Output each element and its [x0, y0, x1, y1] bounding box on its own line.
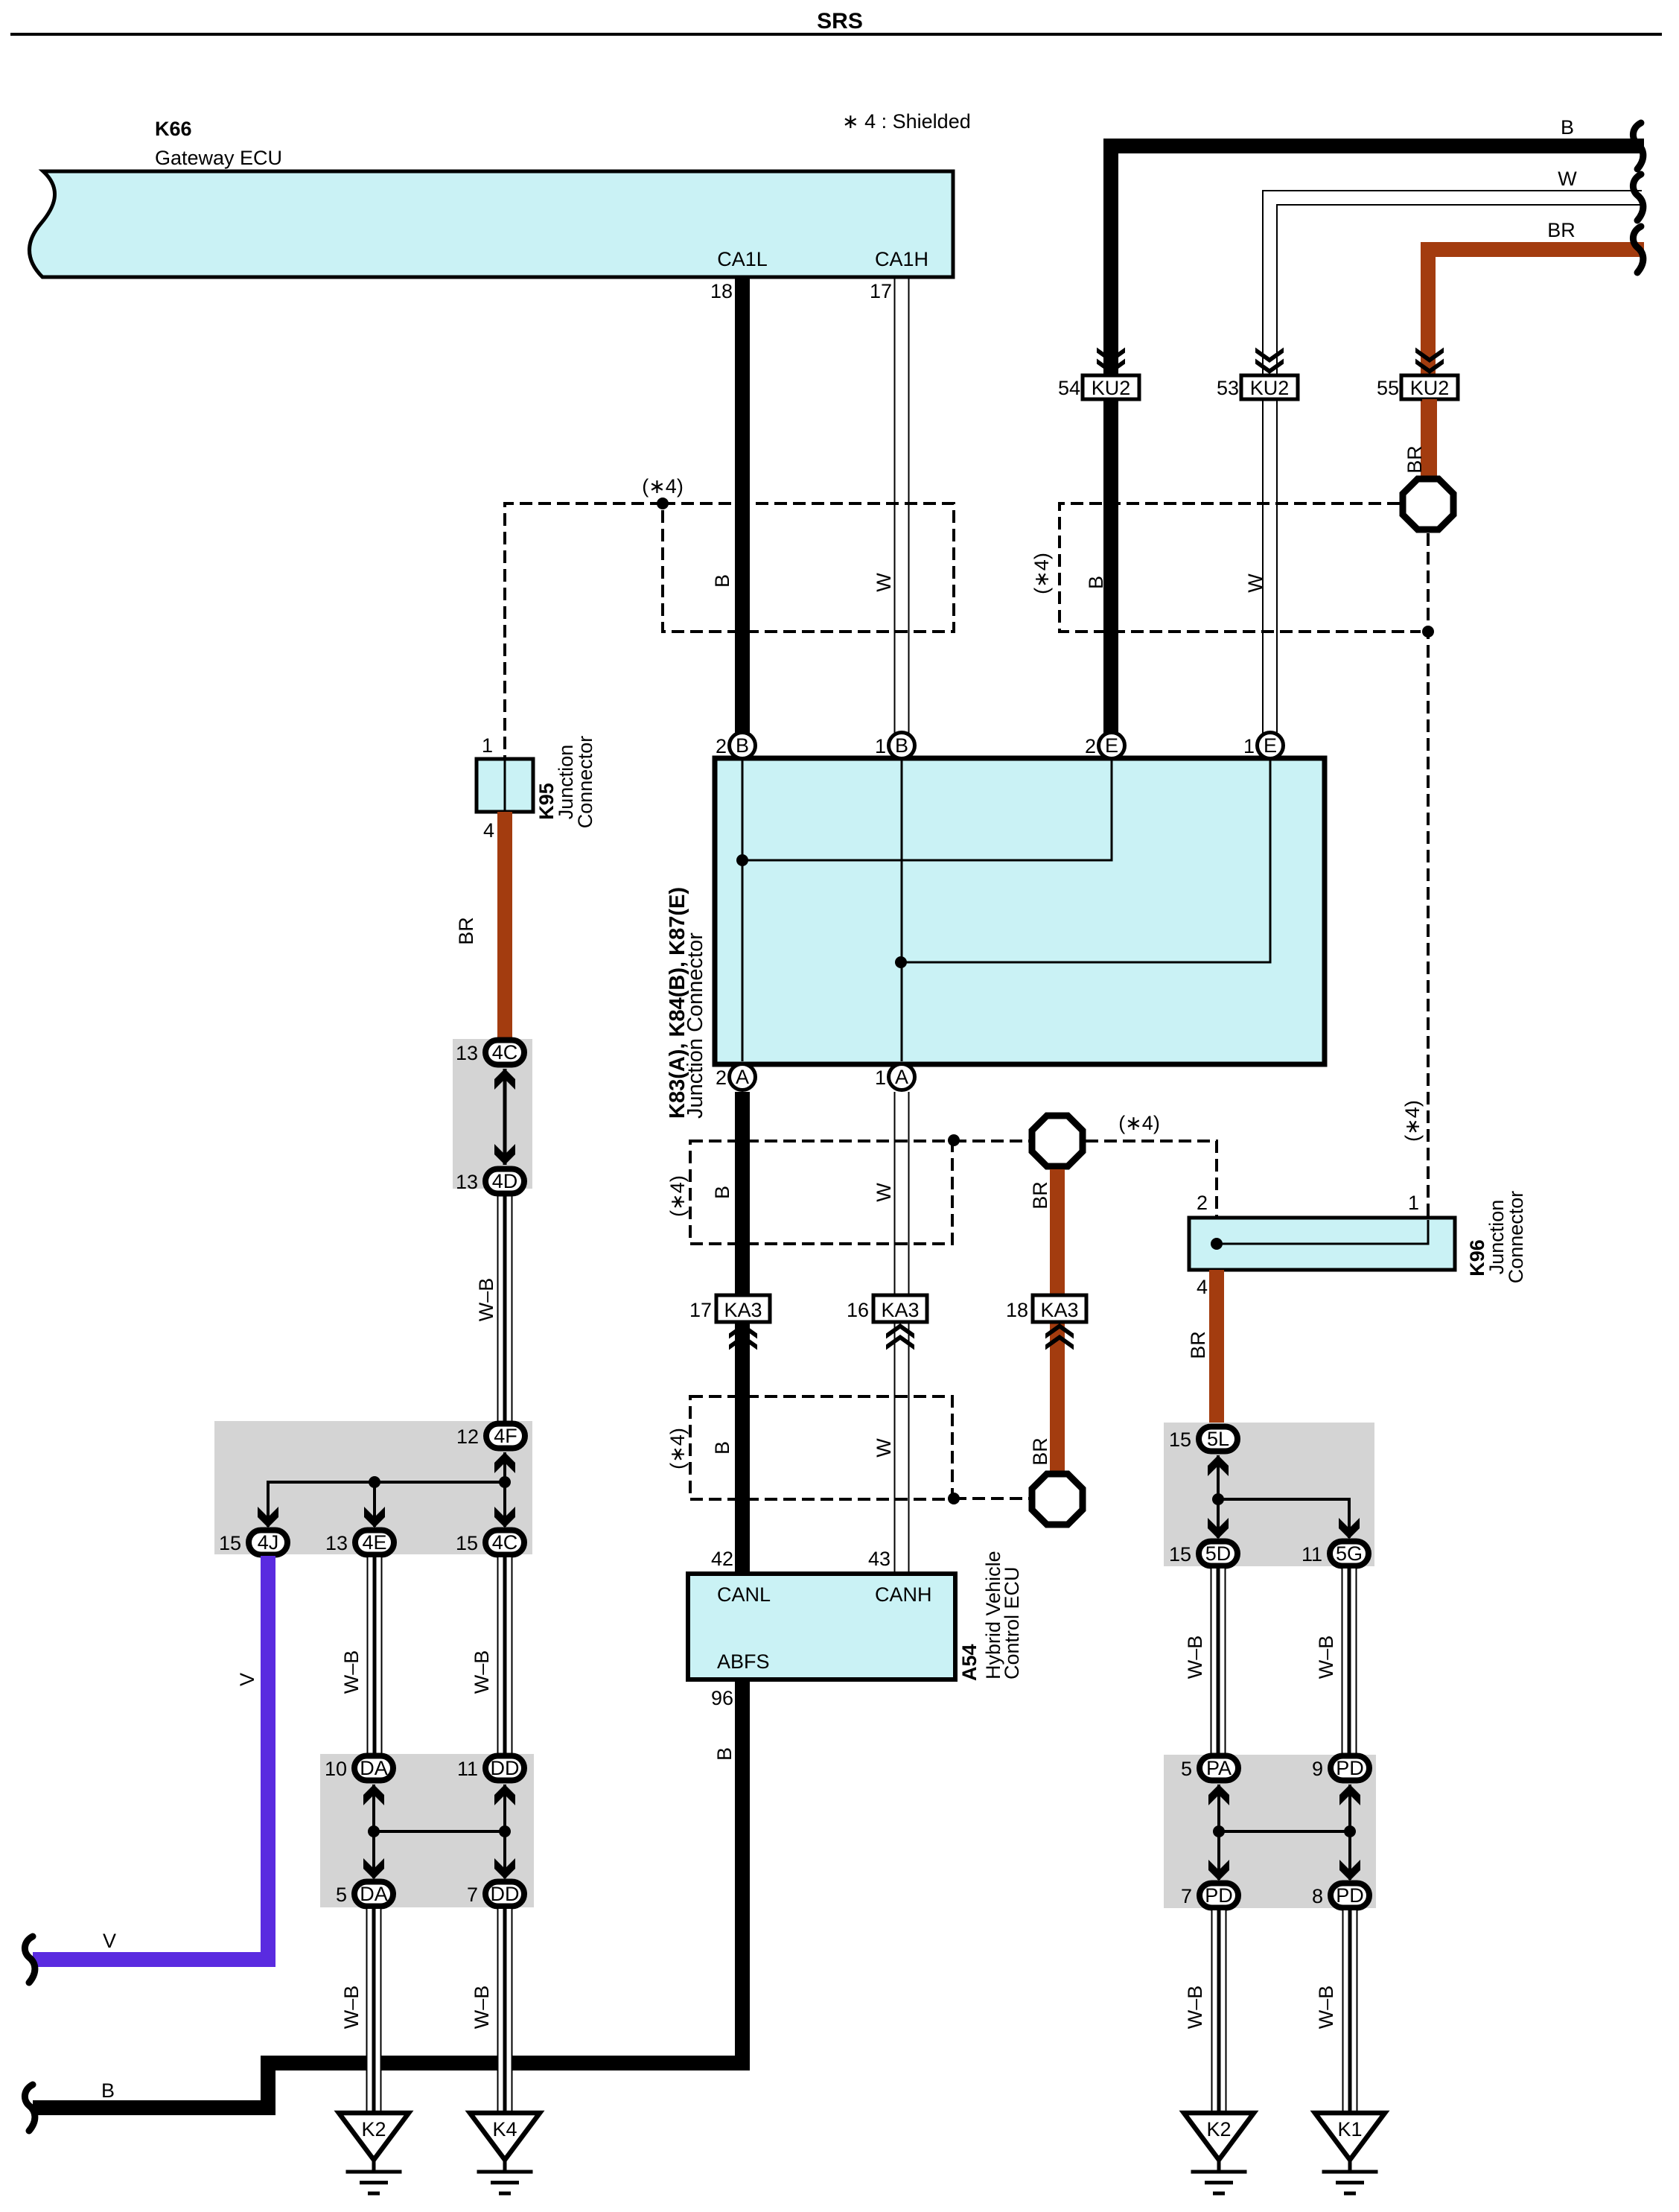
- svg-text:B: B: [895, 734, 908, 757]
- svg-text:W: W: [873, 1183, 895, 1202]
- svg-text:PA: PA: [1206, 1757, 1232, 1779]
- svg-text:5L: 5L: [1207, 1428, 1229, 1450]
- svg-text:15: 15: [456, 1532, 478, 1554]
- svg-text:13: 13: [456, 1042, 478, 1064]
- svg-text:E: E: [1105, 734, 1118, 757]
- svg-text:B: B: [711, 1186, 733, 1199]
- svg-text:96: 96: [711, 1687, 733, 1709]
- svg-text:B: B: [101, 2079, 115, 2102]
- svg-text:13: 13: [456, 1171, 478, 1193]
- svg-text:16: 16: [847, 1299, 869, 1321]
- svg-text:54: 54: [1058, 377, 1080, 399]
- svg-text:W–B: W–B: [1315, 1986, 1337, 2030]
- svg-text:B: B: [711, 574, 733, 588]
- svg-text:BR: BR: [1187, 1331, 1209, 1359]
- svg-text:Control ECU: Control ECU: [1001, 1566, 1023, 1679]
- svg-text:∗ 4 : Shielded: ∗ 4 : Shielded: [842, 110, 971, 133]
- svg-text:1: 1: [1243, 735, 1255, 757]
- svg-text:10: 10: [325, 1758, 347, 1780]
- svg-text:W–B: W–B: [1184, 1636, 1206, 1679]
- svg-text:18: 18: [710, 280, 733, 302]
- svg-text:BR: BR: [1029, 1437, 1051, 1466]
- svg-text:2: 2: [716, 1067, 727, 1089]
- svg-text:12: 12: [456, 1426, 479, 1448]
- svg-text:4C: 4C: [492, 1531, 518, 1554]
- svg-text:7: 7: [1181, 1885, 1192, 1907]
- svg-text:A: A: [736, 1066, 749, 1088]
- svg-text:55: 55: [1377, 377, 1399, 399]
- svg-text:18: 18: [1006, 1299, 1028, 1321]
- svg-text:SRS: SRS: [817, 9, 863, 34]
- svg-text:CANH: CANH: [875, 1583, 932, 1606]
- svg-text:5: 5: [336, 1884, 347, 1906]
- svg-text:ABFS: ABFS: [717, 1650, 770, 1673]
- svg-text:K4: K4: [492, 2118, 517, 2141]
- svg-text:Junction Connector: Junction Connector: [684, 932, 707, 1119]
- svg-text:8: 8: [1312, 1885, 1323, 1907]
- svg-text:CA1L: CA1L: [717, 248, 768, 270]
- svg-text:W–B: W–B: [471, 1650, 493, 1694]
- svg-text:KU2: KU2: [1250, 377, 1290, 399]
- svg-text:4: 4: [483, 819, 494, 842]
- svg-text:B: B: [1561, 116, 1574, 139]
- svg-text:11: 11: [457, 1758, 478, 1780]
- svg-text:17: 17: [689, 1299, 712, 1321]
- svg-text:K2: K2: [361, 2118, 386, 2141]
- svg-text:A: A: [895, 1066, 908, 1088]
- svg-text:W–B: W–B: [340, 1986, 363, 2030]
- svg-text:BR: BR: [455, 917, 477, 945]
- svg-text:53: 53: [1217, 377, 1239, 399]
- svg-text:DA: DA: [360, 1883, 388, 1905]
- svg-text:Connector: Connector: [574, 736, 596, 829]
- svg-text:(∗4): (∗4): [1030, 553, 1053, 594]
- svg-text:W: W: [1244, 573, 1267, 593]
- svg-text:W–B: W–B: [340, 1650, 363, 1694]
- svg-text:W: W: [873, 1438, 895, 1458]
- svg-text:KU2: KU2: [1092, 377, 1131, 399]
- svg-text:W: W: [1558, 168, 1577, 190]
- svg-text:V: V: [103, 1930, 116, 1952]
- svg-text:BR: BR: [1404, 445, 1426, 474]
- svg-text:5: 5: [1181, 1758, 1192, 1780]
- svg-text:2: 2: [1085, 735, 1096, 757]
- svg-text:(∗4): (∗4): [666, 1428, 689, 1469]
- svg-text:CANL: CANL: [717, 1583, 771, 1606]
- svg-text:2: 2: [1197, 1192, 1208, 1214]
- svg-text:KA3: KA3: [724, 1299, 762, 1321]
- svg-text:5G: 5G: [1336, 1542, 1363, 1565]
- svg-text:1: 1: [1408, 1192, 1419, 1214]
- svg-text:PD: PD: [1336, 1757, 1364, 1779]
- svg-text:13: 13: [325, 1532, 348, 1554]
- svg-text:2: 2: [716, 735, 727, 757]
- svg-text:BR: BR: [1547, 219, 1576, 241]
- svg-text:(∗4): (∗4): [1118, 1112, 1160, 1134]
- svg-text:11: 11: [1302, 1543, 1322, 1566]
- svg-text:17: 17: [870, 280, 892, 302]
- svg-text:W–B: W–B: [471, 1986, 493, 2030]
- svg-text:PD: PD: [1205, 1884, 1233, 1907]
- svg-text:KU2: KU2: [1410, 377, 1450, 399]
- svg-text:E: E: [1264, 734, 1277, 757]
- svg-text:W–B: W–B: [475, 1278, 497, 1322]
- svg-text:42: 42: [711, 1548, 733, 1570]
- svg-text:(∗4): (∗4): [1401, 1100, 1424, 1142]
- svg-text:15: 15: [1169, 1428, 1191, 1451]
- svg-text:5D: 5D: [1205, 1542, 1232, 1565]
- svg-text:A54: A54: [958, 1644, 981, 1681]
- svg-text:4J: 4J: [258, 1531, 279, 1554]
- svg-text:15: 15: [1169, 1543, 1191, 1566]
- svg-text:9: 9: [1312, 1758, 1323, 1780]
- svg-text:DD: DD: [491, 1757, 520, 1779]
- svg-text:W–B: W–B: [1184, 1986, 1206, 2030]
- svg-text:DA: DA: [360, 1757, 388, 1779]
- svg-text:BR: BR: [1029, 1181, 1051, 1210]
- svg-text:4F: 4F: [494, 1425, 517, 1447]
- svg-text:V: V: [236, 1673, 258, 1686]
- svg-text:(∗4): (∗4): [666, 1175, 689, 1217]
- svg-text:15: 15: [219, 1532, 241, 1554]
- svg-text:K66: K66: [155, 118, 192, 140]
- svg-text:1: 1: [482, 734, 493, 757]
- svg-text:B: B: [1085, 576, 1107, 589]
- svg-text:K2: K2: [1206, 2118, 1231, 2141]
- svg-text:B: B: [711, 1441, 733, 1455]
- svg-text:1: 1: [875, 735, 886, 757]
- svg-text:Gateway ECU: Gateway ECU: [155, 147, 282, 169]
- svg-text:43: 43: [868, 1548, 891, 1570]
- svg-text:4D: 4D: [492, 1170, 518, 1192]
- svg-text:1: 1: [875, 1067, 886, 1089]
- svg-text:KA3: KA3: [881, 1299, 919, 1321]
- svg-text:W–B: W–B: [1315, 1636, 1337, 1679]
- svg-text:7: 7: [467, 1884, 478, 1906]
- svg-text:4C: 4C: [492, 1041, 518, 1064]
- svg-text:B: B: [713, 1747, 736, 1761]
- svg-text:Connector: Connector: [1505, 1191, 1527, 1284]
- svg-text:KA3: KA3: [1040, 1299, 1078, 1321]
- svg-text:4E: 4E: [362, 1531, 386, 1554]
- svg-text:W: W: [873, 573, 895, 592]
- svg-text:4: 4: [1197, 1276, 1208, 1298]
- svg-text:DD: DD: [491, 1883, 520, 1905]
- svg-text:CA1H: CA1H: [875, 248, 928, 270]
- svg-text:PD: PD: [1336, 1884, 1364, 1907]
- svg-text:K1: K1: [1337, 2118, 1362, 2141]
- svg-text:(∗4): (∗4): [642, 475, 684, 498]
- svg-text:B: B: [736, 734, 749, 757]
